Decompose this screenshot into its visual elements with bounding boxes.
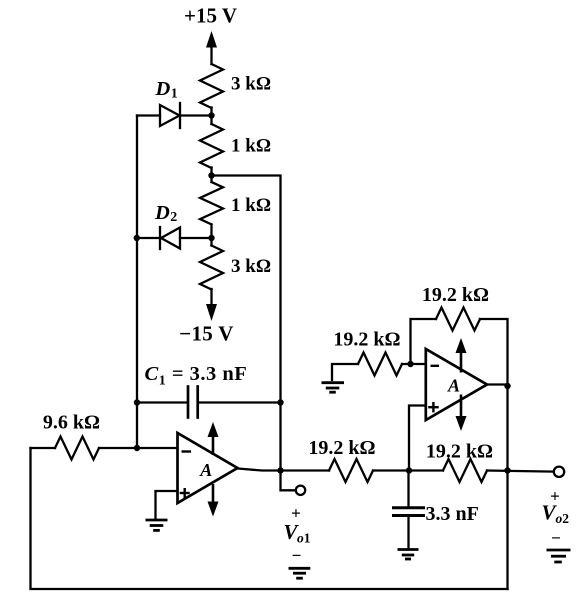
svg-text:19.2 kΩ: 19.2 kΩ: [333, 329, 400, 351]
svg-text:1: 1: [171, 87, 178, 102]
svg-text:1 kΩ: 1 kΩ: [231, 135, 271, 156]
svg-text:−: −: [292, 546, 302, 565]
svg-text:19.2 kΩ: 19.2 kΩ: [426, 440, 493, 462]
svg-text:A: A: [447, 376, 460, 396]
svg-text:o1: o1: [297, 530, 311, 545]
svg-text:19.2 kΩ: 19.2 kΩ: [422, 284, 489, 306]
svg-text:o2: o2: [556, 511, 570, 526]
svg-text:3 kΩ: 3 kΩ: [231, 256, 271, 277]
svg-text:2: 2: [170, 210, 177, 225]
svg-text:9.6 kΩ: 9.6 kΩ: [43, 412, 100, 434]
svg-text:A: A: [199, 460, 212, 480]
svg-text:−: −: [551, 529, 561, 548]
svg-text:C1 = 3.3 nF: C1 = 3.3 nF: [145, 363, 248, 388]
svg-text:3.3 nF: 3.3 nF: [426, 503, 479, 525]
svg-text:1 kΩ: 1 kΩ: [231, 195, 271, 216]
svg-text:D: D: [155, 78, 171, 100]
svg-text:+15 V: +15 V: [184, 3, 237, 27]
svg-text:D: D: [154, 202, 170, 224]
svg-text:−15 V: −15 V: [179, 321, 234, 345]
svg-text:19.2 kΩ: 19.2 kΩ: [308, 437, 375, 459]
svg-text:3 kΩ: 3 kΩ: [231, 73, 271, 94]
